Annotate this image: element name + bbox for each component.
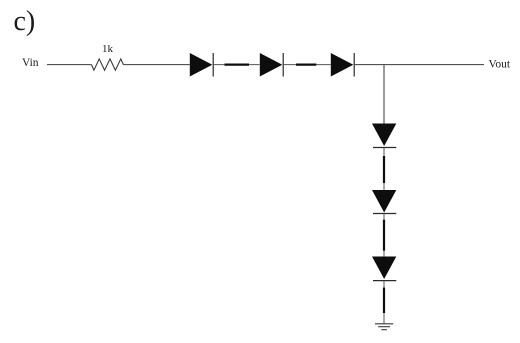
svg-text:Vin: Vin — [22, 57, 39, 69]
wire D2 to D3 — [284, 64, 331, 66]
svg-text:c): c) — [14, 6, 36, 37]
svg-text:1k: 1k — [102, 43, 114, 55]
wire Vin to R1 — [47, 64, 92, 66]
wire junction to D4 — [383, 65, 385, 124]
diode D2 — [260, 53, 283, 77]
diode D4 — [372, 124, 396, 148]
diode D3 — [331, 53, 354, 77]
diode D5 — [372, 190, 396, 214]
diode D6 — [372, 257, 396, 281]
resistor R1 — [92, 59, 124, 70]
wire R1 to D1 — [123, 64, 189, 66]
wire D3 to Vout — [355, 64, 484, 66]
wire D6 to ground — [383, 281, 385, 324]
ground — [375, 324, 393, 330]
diode D1 — [190, 53, 213, 77]
wire D1 to D2 — [214, 64, 260, 66]
wire D4 to D5 — [383, 148, 385, 190]
svg-text:Vout: Vout — [489, 59, 511, 71]
wire D5 to D6 — [383, 214, 385, 257]
